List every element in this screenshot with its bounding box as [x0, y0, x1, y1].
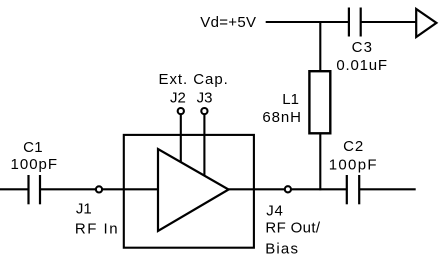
wire: C1 through J1 to amplifier triangle input — [40, 188, 158, 190]
wire: Vd junction down to L1 top — [319, 21, 321, 72]
connector J1 terminal circle — [96, 186, 102, 192]
svg-text:Vd=+5V: Vd=+5V — [200, 14, 256, 31]
wire: L1 bottom to RF output node — [319, 133, 321, 190]
connector J3 terminal circle — [201, 108, 207, 114]
svg-text:0.01uF: 0.01uF — [336, 57, 388, 74]
amplifier triangle — [158, 149, 229, 231]
svg-text:J1: J1 — [76, 201, 92, 218]
svg-text:J4: J4 — [266, 202, 283, 219]
output arrow (antenna) symbol — [416, 9, 436, 37]
wire: C2 to RF output end — [359, 188, 416, 190]
capacitor C3 — [349, 8, 361, 37]
wire: Vd supply rail to C3 — [266, 21, 349, 23]
svg-text:C3: C3 — [352, 39, 374, 56]
svg-text:C2: C2 — [343, 138, 364, 155]
svg-text:RF Out/: RF Out/ — [265, 220, 320, 237]
svg-text:J2: J2 — [170, 90, 186, 107]
capacitor C1 — [29, 175, 41, 204]
svg-text:100pF: 100pF — [329, 157, 378, 174]
wire: RF input from left edge to C1 — [0, 188, 29, 190]
amplifier block outline — [124, 135, 254, 248]
capacitor C2 — [347, 175, 359, 204]
svg-text:L1: L1 — [282, 91, 299, 108]
svg-text:RF In: RF In — [75, 220, 119, 237]
connector J2 terminal circle — [178, 108, 184, 114]
svg-text:68nH: 68nH — [262, 109, 301, 126]
wire: J3 pin into amplifier — [203, 111, 205, 176]
svg-text:J3: J3 — [197, 90, 213, 107]
wire: C3 to output arrow — [361, 21, 417, 23]
wire: amplifier output through J4 to C2 — [229, 188, 347, 190]
wire: J2 pin into amplifier — [180, 111, 182, 163]
connector J4 terminal circle — [285, 186, 291, 192]
inductor L1 — [309, 71, 330, 133]
svg-text:100pF: 100pF — [11, 156, 59, 173]
svg-text:Ext. Cap.: Ext. Cap. — [159, 71, 229, 88]
svg-text:Bias: Bias — [265, 240, 299, 257]
svg-text:C1: C1 — [23, 139, 43, 156]
